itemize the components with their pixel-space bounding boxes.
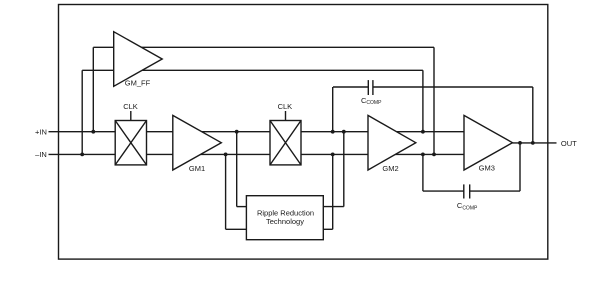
svg-text:+IN: +IN	[35, 128, 47, 137]
svg-text:CCOMP: CCOMP	[457, 201, 478, 211]
svg-text:GM3: GM3	[479, 164, 495, 173]
svg-text:CLK: CLK	[278, 102, 293, 111]
svg-text:–IN: –IN	[35, 150, 47, 159]
svg-text:GM_FF: GM_FF	[125, 78, 151, 87]
svg-text:GM2: GM2	[382, 164, 398, 173]
svg-text:CCOMP: CCOMP	[361, 96, 382, 106]
svg-text:CLK: CLK	[123, 102, 138, 111]
svg-text:GM1: GM1	[189, 164, 205, 173]
svg-text:Technology: Technology	[266, 217, 304, 226]
svg-text:OUT: OUT	[561, 139, 577, 148]
